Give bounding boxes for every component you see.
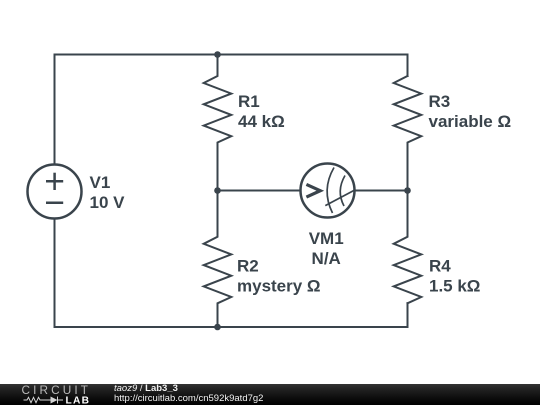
svg-text:LAB: LAB xyxy=(66,396,91,405)
svg-text:variable Ω: variable Ω xyxy=(429,112,512,131)
svg-text:44 kΩ: 44 kΩ xyxy=(238,112,285,131)
svg-text:10 V: 10 V xyxy=(90,193,126,212)
svg-text:mystery Ω: mystery Ω xyxy=(237,276,321,295)
svg-text:V1: V1 xyxy=(90,173,111,192)
svg-text:R3: R3 xyxy=(429,92,451,111)
svg-text:1.5 kΩ: 1.5 kΩ xyxy=(429,276,480,295)
svg-text:R2: R2 xyxy=(237,256,259,275)
svg-text:VM1: VM1 xyxy=(309,229,344,248)
svg-text:R4: R4 xyxy=(429,256,451,275)
svg-text:R1: R1 xyxy=(238,92,260,111)
svg-text:N/A: N/A xyxy=(312,249,341,268)
